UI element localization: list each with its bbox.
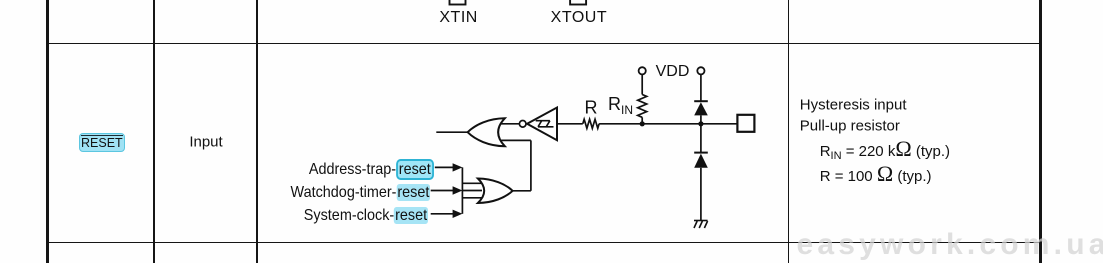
pad XTOUT (square, cut at top) (570, 0, 586, 5)
pad XTIN (square, cut at top) (450, 0, 466, 5)
table row line top (46, 43, 1043, 45)
resistor R (horizontal zigzag) (583, 119, 599, 128)
pad XTIN label (439, 9, 477, 27)
description text (800, 97, 907, 114)
watermark easywork.com.ua (797, 230, 1103, 260)
wire: U2 output to connector (512, 190, 531, 192)
power label VDD (656, 63, 690, 81)
arrow input Address-trap-reset (435, 163, 463, 171)
wire: RIN to node (641, 117, 643, 124)
net label Address-trap-reset (309, 161, 434, 179)
or-gate U1 (mirrored, output faces left) (468, 118, 505, 146)
wire: bus to U2 input 1 (462, 182, 482, 184)
arrow input System-clock-reset (431, 210, 463, 218)
table row line bottom (46, 242, 1043, 244)
node junction at diodes (698, 121, 703, 126)
pad RESET (square) (737, 115, 754, 132)
schmitt hysteresis symbol (536, 121, 554, 127)
wire: VDD to RIN (641, 75, 643, 95)
table column line 2 (153, 0, 155, 263)
arrow input Watchdog-timer-reset (431, 186, 463, 194)
or-gate U2 (3-input, output faces right) (478, 179, 513, 204)
column: Input (189, 133, 222, 150)
wire: input bus vertical (461, 167, 463, 213)
terminal VDD right (circle) (697, 67, 704, 74)
table column line 3 (256, 0, 258, 263)
bubble on schmitt inverter output (519, 121, 526, 128)
diode D2 (clamp to ground) (694, 153, 708, 168)
wire: D1 to node (700, 115, 702, 123)
wire: U1 bottom input stub (496, 139, 531, 141)
net label System-clock-reset (304, 207, 428, 225)
wire: U1 top input stub from Schmitt bubble (496, 123, 519, 125)
resistor label RIN (608, 94, 633, 117)
wire: node to diode D2 (700, 124, 702, 153)
ground symbol (694, 221, 708, 229)
diode D1 (clamp to VDD) (694, 101, 708, 115)
terminal VDD left (circle) (639, 67, 646, 74)
node junction at RIN (640, 121, 645, 126)
wire: VDD to diode D1 (700, 75, 702, 102)
table right thick border (1039, 0, 1042, 263)
table column line 4 (788, 0, 790, 263)
resistor RIN (vertical zigzag) (638, 95, 647, 118)
wire: resistor R to pad (599, 123, 737, 125)
wire: output of OR gate U1 to the left (436, 131, 468, 133)
wire: vertical connector from OR gate U2 output (530, 140, 532, 190)
wire: D2 to ground (700, 168, 702, 221)
table column line 1 (left thick border) (46, 0, 49, 263)
wire: bus to U2 input 3 (462, 197, 482, 199)
net label Watchdog-timer-reset (290, 184, 430, 202)
wire: triangle to resistor R (557, 123, 583, 125)
wire: bus to U2 input 2 (462, 190, 482, 192)
pad XTOUT label (551, 9, 607, 27)
resistor label R (585, 98, 598, 119)
schmitt inverter (triangle, points left) (527, 108, 557, 141)
pin name RESET (active low, search-highlighted) (79, 133, 125, 152)
